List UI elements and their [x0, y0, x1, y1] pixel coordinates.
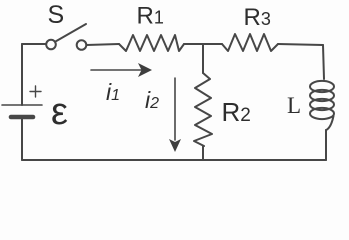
wire switch to R1 [87, 44, 120, 45]
current arrow i2 shaft [174, 78, 176, 140]
current arrow i2 head [169, 139, 181, 152]
resistor R1 [119, 35, 184, 51]
wire bottom horizontal [22, 159, 326, 161]
svg-text:ε: ε [51, 91, 68, 133]
current arrow i1 head [138, 63, 152, 77]
wire R3 to top-right corner [278, 44, 323, 45]
wire right vertical upper [323, 45, 324, 79]
battery EMF source: short thick negative plate [11, 115, 33, 120]
wire R2 to bottom [202, 146, 204, 160]
wire right vertical lower [325, 130, 327, 160]
svg-text:L: L [287, 93, 301, 118]
plus polarity mark [30, 86, 41, 97]
svg-text:S: S [48, 1, 65, 29]
resistor R3 [222, 34, 278, 51]
inductor L [310, 81, 334, 130]
wire left vertical upper [21, 44, 23, 105]
svg-text:R3: R3 [244, 4, 271, 31]
svg-text:R1: R1 [137, 3, 164, 30]
wire left vertical lower [21, 119, 23, 160]
battery EMF source: long thin positive plate [2, 104, 42, 106]
wire top-left horizontal [22, 43, 46, 45]
resistor R2 [194, 73, 212, 146]
node junction top (R1/R3/R2) [202, 44, 204, 73]
wire R1 to R3 (through node) [184, 43, 222, 45]
current arrow i1 shaft [91, 69, 141, 71]
switch S [46, 24, 86, 50]
